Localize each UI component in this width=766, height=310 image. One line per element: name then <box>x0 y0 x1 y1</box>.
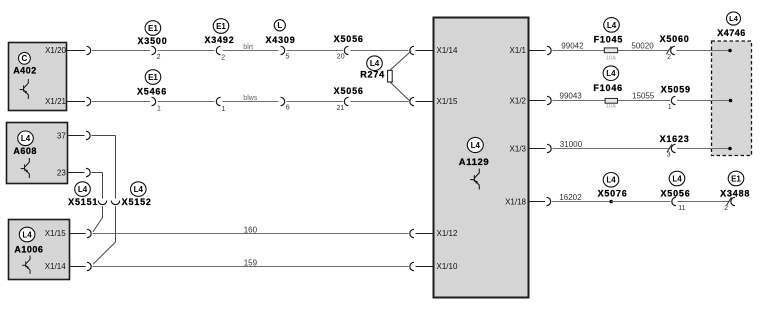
svg-text:10A: 10A <box>606 55 616 61</box>
svg-text:A402: A402 <box>13 66 37 76</box>
svg-text:X1/10: X1/10 <box>437 262 458 271</box>
wire 31000 <box>553 140 671 149</box>
wire A1129 X1/18 stub <box>529 201 546 203</box>
connector at A1129 X1/15 <box>410 97 414 105</box>
wire 99043 <box>553 92 606 101</box>
connector X3488 pin 2 <box>720 171 750 212</box>
wire A1129 X1/2 stub <box>529 100 546 102</box>
connector at A1129 X1/3 <box>547 144 551 152</box>
svg-text:2: 2 <box>157 54 161 61</box>
svg-text:50020: 50020 <box>631 42 654 51</box>
svg-text:C: C <box>22 54 28 63</box>
connector at A608 pin 37 <box>86 131 90 139</box>
wire A1129 X1/15 stub <box>416 101 434 103</box>
wire pin23 to corner <box>92 173 103 199</box>
svg-text:E1: E1 <box>148 24 158 33</box>
connector X5056 pin 21 <box>334 86 364 112</box>
svg-text:21: 21 <box>337 105 345 112</box>
connector X3492 pin 2 <box>204 19 234 62</box>
svg-text:X1/15: X1/15 <box>437 97 458 106</box>
svg-text:L4: L4 <box>22 230 32 239</box>
svg-text:X3488: X3488 <box>720 188 750 198</box>
svg-text:L4: L4 <box>370 59 380 68</box>
wire row1 segment to X3500 <box>92 50 150 52</box>
wire 50020 <box>618 42 670 51</box>
pin X4746 row2 <box>729 99 733 103</box>
wire 15055 <box>618 92 670 101</box>
connector X4309 pin 5 <box>265 20 295 61</box>
fuse F1046 10A <box>593 66 623 110</box>
svg-text:99043: 99043 <box>560 92 583 101</box>
wire 159 <box>93 259 409 268</box>
svg-text:X1/14: X1/14 <box>45 262 66 271</box>
svg-text:A608: A608 <box>13 146 37 156</box>
wire A608 pin 23 stub <box>68 172 85 174</box>
wire 160 <box>93 226 409 235</box>
connector X4309 pin 6 <box>281 97 290 111</box>
svg-text:L: L <box>277 21 282 30</box>
connector at A402 X1/20 <box>87 46 91 54</box>
wire A608 pin 37 stub <box>68 135 85 137</box>
connector at A1129 X1/18 <box>547 197 551 205</box>
svg-text:159: 159 <box>244 259 258 268</box>
svg-text:L4: L4 <box>134 185 144 194</box>
wire row2 segment X5056-node <box>351 101 409 103</box>
svg-text:1: 1 <box>222 106 226 113</box>
svg-text:L4: L4 <box>606 69 616 78</box>
svg-text:X1/12: X1/12 <box>437 229 458 238</box>
svg-text:X1/20: X1/20 <box>45 46 66 55</box>
connector at A1129 X1/2 <box>547 96 551 104</box>
svg-text:16202: 16202 <box>559 193 582 202</box>
wire A1129 X1/14 stub <box>416 50 434 52</box>
svg-text:20: 20 <box>337 54 345 61</box>
svg-text:2: 2 <box>221 55 225 62</box>
svg-text:X5151: X5151 <box>68 197 98 207</box>
svg-text:X5059: X5059 <box>661 84 691 94</box>
svg-text:15055: 15055 <box>632 92 655 101</box>
svg-text:R274: R274 <box>360 69 385 79</box>
wire A1129 X1/10 stub <box>416 266 434 268</box>
splice X5076 <box>598 173 628 204</box>
wire X5059 to X4746 <box>677 100 731 102</box>
wire row2 segment X4309-X5056 <box>287 101 344 103</box>
wire pin37 to corner <box>92 136 116 199</box>
svg-text:X5060: X5060 <box>660 34 690 44</box>
connector X5056 pin 11 <box>660 171 690 212</box>
svg-text:E1: E1 <box>216 22 226 31</box>
svg-text:blrt: blrt <box>243 44 253 51</box>
connector X5060 pin 2 <box>660 34 690 61</box>
svg-text:99042: 99042 <box>561 42 584 51</box>
connector at A402 X1/21 <box>87 97 91 105</box>
svg-text:X3500: X3500 <box>137 36 167 46</box>
svg-text:X1/14: X1/14 <box>437 46 458 55</box>
wire row2 segment X5466-X3492 <box>158 101 215 103</box>
wire row1 segment blrt <box>223 44 279 51</box>
svg-text:blws: blws <box>243 95 258 102</box>
svg-text:37: 37 <box>57 131 66 140</box>
svg-text:X5076: X5076 <box>598 188 628 198</box>
svg-text:2: 2 <box>724 205 728 212</box>
wire 99042 <box>553 42 605 51</box>
svg-text:5: 5 <box>286 53 290 60</box>
wire A402 X1/20 stub <box>67 50 86 52</box>
svg-text:X1/21: X1/21 <box>45 97 66 106</box>
wire row1 segment X5056-node <box>351 50 409 52</box>
connector at A608 pin 23 <box>86 168 90 176</box>
svg-text:F1046: F1046 <box>593 83 623 93</box>
svg-text:6: 6 <box>286 105 290 112</box>
control unit A1006 <box>9 220 70 280</box>
wire A1006 X1/15 stub <box>70 233 86 235</box>
connector at A1129 X1/10 <box>410 262 414 270</box>
connector X5151 <box>68 182 107 207</box>
connector X5059 pin 1 <box>661 84 691 111</box>
svg-text:E1: E1 <box>148 73 158 82</box>
connector at A1129 X1/14 <box>410 46 414 54</box>
wire X5056-X3488 <box>678 201 730 203</box>
svg-text:X1/2: X1/2 <box>510 97 527 106</box>
svg-text:X4309: X4309 <box>265 35 295 45</box>
svg-text:L4: L4 <box>78 185 88 194</box>
svg-text:X1/3: X1/3 <box>510 144 527 153</box>
svg-text:X1/18: X1/18 <box>505 197 526 206</box>
connector at A1129 X1/12 <box>410 229 414 237</box>
connector at A1006 X1/14 <box>87 262 91 270</box>
connector at A1006 X1/15 <box>87 229 91 237</box>
svg-text:X3492: X3492 <box>204 35 234 45</box>
svg-text:L4: L4 <box>672 174 682 183</box>
svg-text:1: 1 <box>157 105 161 112</box>
svg-text:L4: L4 <box>729 14 739 23</box>
wire row1 segment X4309-X5056 <box>287 50 344 52</box>
connector X4746 (dashed box) <box>712 12 752 156</box>
wire A1006 X1/14 stub <box>70 266 86 268</box>
connector X1623 pin 3 <box>660 134 690 158</box>
svg-text:3: 3 <box>667 151 671 158</box>
svg-text:X5466: X5466 <box>137 87 167 97</box>
svg-text:A1129: A1129 <box>459 157 489 168</box>
svg-text:11: 11 <box>678 205 685 212</box>
svg-text:X1623: X1623 <box>660 134 690 144</box>
connector X3500 pin 2 <box>137 21 167 62</box>
svg-text:X5056: X5056 <box>334 34 364 44</box>
pin X4746 row1 <box>728 49 732 53</box>
control unit A1129 <box>434 18 529 298</box>
svg-text:X5152: X5152 <box>122 197 152 207</box>
svg-text:L4: L4 <box>607 21 617 30</box>
speaker R274 <box>360 51 411 101</box>
wire A1129 X1/3 stub <box>529 148 546 150</box>
wire X5152 to A1006 X1/14 <box>93 206 116 264</box>
wire 16202 <box>552 193 610 202</box>
connector X3492 pin 1 <box>216 97 225 113</box>
wire row2 segment blws <box>223 95 279 102</box>
svg-text:E1: E1 <box>731 174 741 183</box>
connector X5056 pin 20 <box>334 34 364 61</box>
connector X5466 pin 1 <box>137 70 167 113</box>
wire A1129 X1/1 stub <box>529 50 546 52</box>
svg-text:2: 2 <box>667 54 671 61</box>
svg-text:L4: L4 <box>21 134 31 143</box>
wire X5076-X5056 <box>611 201 670 203</box>
pin X4746 row3 <box>728 147 732 151</box>
svg-text:L4: L4 <box>606 176 616 185</box>
control unit A402 <box>9 43 67 111</box>
connector at A1129 X1/1 <box>547 46 551 54</box>
svg-text:31000: 31000 <box>560 140 583 149</box>
svg-text:F1045: F1045 <box>594 35 624 45</box>
wire X1623 to X4746 <box>677 148 730 150</box>
svg-text:1: 1 <box>668 104 672 111</box>
control unit A608 <box>7 123 68 184</box>
svg-text:160: 160 <box>244 226 258 235</box>
wire X5151 to A1006 X1/15 <box>93 206 103 232</box>
fuse F1045 10A <box>594 18 624 62</box>
svg-text:10A: 10A <box>606 104 616 110</box>
svg-text:A1006: A1006 <box>14 245 43 255</box>
wire A402 X1/21 stub <box>67 101 86 103</box>
svg-text:L4: L4 <box>471 141 481 150</box>
wire A1129 X1/12 stub <box>416 233 434 235</box>
svg-text:X1/15: X1/15 <box>45 229 66 238</box>
wire row2 segment to X5466 <box>92 101 150 103</box>
svg-text:X4746: X4746 <box>717 28 746 38</box>
wire row1 segment X3500-X3492 <box>158 50 215 52</box>
connector X5152 <box>111 182 151 207</box>
svg-text:23: 23 <box>57 169 66 178</box>
svg-text:X1/1: X1/1 <box>510 46 527 55</box>
wire X5060 to X4746 <box>676 50 730 52</box>
svg-text:X5056: X5056 <box>334 86 364 96</box>
